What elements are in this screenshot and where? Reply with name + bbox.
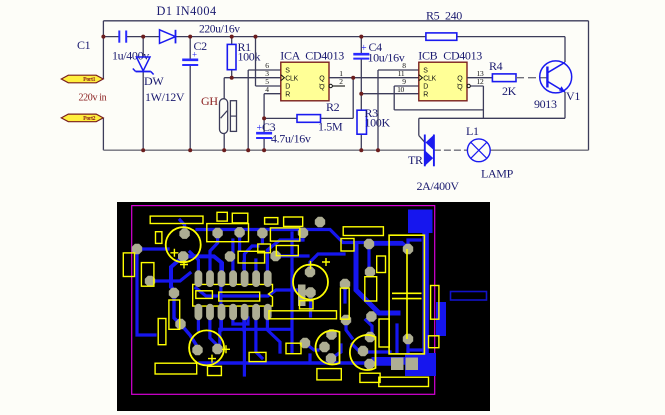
svg-text:4.7u/16v: 4.7u/16v [271, 132, 311, 146]
svg-text:4: 4 [265, 85, 269, 94]
flip-flop ICA CD4013 [281, 62, 329, 101]
svg-text:GH: GH [201, 94, 218, 108]
resistor R3 [357, 110, 367, 134]
pcb connector bar right [451, 292, 487, 301]
pcb copper pour top right [408, 210, 433, 234]
wire right rail [588, 21, 590, 150]
triac TR [424, 135, 426, 167]
svg-text:S: S [285, 68, 290, 75]
svg-text:CD4013: CD4013 [305, 49, 344, 63]
svg-text:Q: Q [319, 84, 325, 91]
wire R4 to base [516, 77, 547, 79]
svg-text:R2: R2 [326, 100, 340, 114]
svg-text:S: S [423, 68, 428, 75]
wire C2 branch [189, 37, 191, 60]
svg-text:R5: R5 [426, 9, 440, 23]
wire bottom rail triac-lamp [434, 149, 467, 151]
wire R3 branch [360, 94, 362, 111]
pcb silkscreen IC body [193, 284, 273, 306]
svg-text:Q: Q [457, 75, 463, 82]
pcb plus marks [170, 249, 178, 257]
svg-text:Port2: Port2 [83, 116, 96, 122]
port Port2 [61, 114, 103, 122]
svg-text:10: 10 [397, 85, 404, 94]
pcb board background [117, 202, 490, 411]
port Port1 [61, 75, 103, 83]
svg-text:DW: DW [144, 74, 164, 88]
wire left rail upper [102, 21, 104, 79]
svg-text:CLK: CLK [423, 75, 436, 82]
svg-text:+: + [361, 43, 367, 54]
svg-text:10u/16v: 10u/16v [368, 51, 405, 65]
pcb pads [179, 229, 189, 239]
wire R2 row [264, 117, 297, 119]
transistor V1 [540, 61, 572, 93]
wire C3 branch [263, 118, 265, 132]
pcb copper pour bottom right [405, 353, 436, 376]
wire ICB S branch [378, 69, 419, 71]
resistor R2 [297, 115, 321, 123]
wire top rail [103, 20, 588, 22]
wire bottom rail lamp-right [490, 149, 588, 151]
svg-text:ICB: ICB [418, 49, 437, 63]
svg-text:D: D [423, 84, 428, 91]
wire ICA S branch [248, 69, 281, 71]
wire bottom rail [103, 149, 424, 151]
svg-text:1W/12V: 1W/12V [145, 90, 185, 104]
resistor R5 [426, 33, 457, 40]
svg-text:R: R [423, 91, 428, 98]
svg-text:12: 12 [477, 77, 484, 86]
svg-text:Port1: Port1 [83, 77, 96, 83]
svg-text:2: 2 [339, 77, 343, 86]
ICA Qbar bubble [329, 84, 332, 87]
svg-text:Q: Q [319, 75, 325, 82]
svg-text:D: D [285, 84, 290, 91]
svg-text:D1 IN4004: D1 IN4004 [157, 4, 217, 18]
resistor R4 [492, 74, 516, 82]
svg-text:CD4013: CD4013 [443, 49, 482, 63]
svg-text:R4: R4 [489, 59, 503, 73]
pcb pad block right of IC [298, 285, 306, 307]
flip-flop ICB CD4013 [419, 62, 467, 101]
pcb silkscreen capacitor E1 [166, 227, 201, 262]
wire CLK row [224, 77, 281, 79]
svg-text:LAMP: LAMP [481, 167, 514, 181]
wire C4 branch [360, 37, 362, 54]
pcb silkscreen capacitor E2 [293, 265, 328, 300]
pcb silkscreen transistor T2 [350, 335, 376, 370]
svg-text:C2: C2 [194, 39, 208, 53]
wire emitter [564, 92, 566, 118]
pcb traces [197, 230, 408, 249]
svg-text:2A/400V: 2A/400V [417, 179, 460, 193]
wire collector drop [564, 37, 566, 62]
capacitor C4 [353, 53, 369, 56]
wire Qbar loop [482, 86, 484, 118]
resonator GH [220, 99, 228, 134]
pcb IC pads [195, 270, 203, 287]
wire zener branch [142, 37, 144, 57]
svg-text:100k: 100k [238, 50, 261, 64]
lamp L1 [467, 139, 490, 162]
svg-text:1.5M: 1.5M [318, 120, 343, 134]
wire ICA D branch [255, 37, 257, 86]
svg-text:9013: 9013 [534, 97, 557, 111]
pcb silkscreen rects [150, 216, 203, 223]
wire gate [418, 118, 420, 135]
wire to ICB [361, 93, 394, 95]
wire Q2 to R4 [467, 77, 492, 79]
wire R1 branch [231, 37, 233, 45]
junction dots [101, 35, 105, 39]
svg-text:2K: 2K [502, 84, 517, 98]
svg-text:R: R [285, 91, 290, 98]
diode D1 [160, 30, 176, 44]
pcb board outline [132, 206, 435, 395]
capacitor C3 [256, 132, 272, 135]
svg-text:CLK: CLK [285, 75, 298, 82]
wire GH branch [223, 78, 225, 151]
wire supply row [103, 36, 119, 38]
wire Q1 to CLK2 [329, 77, 419, 79]
pcb silkscreen big capacitor [389, 235, 424, 354]
pcb pad squares bottom right [391, 358, 404, 371]
svg-text:C1: C1 [77, 38, 91, 52]
ICB Qbar bubble [467, 84, 470, 87]
zener DW [136, 57, 150, 71]
resistor R1 [227, 44, 236, 69]
pcb right pour strip [436, 302, 446, 336]
svg-text:V1: V1 [566, 89, 580, 103]
wire left rail lower [102, 118, 104, 150]
svg-text:240: 240 [445, 9, 462, 23]
svg-text:Q: Q [457, 84, 463, 91]
svg-text:ICA: ICA [280, 49, 300, 63]
wire ICA R branch [264, 93, 281, 95]
svg-text:L1: L1 [466, 124, 479, 138]
svg-text:220v in: 220v in [79, 93, 107, 104]
capacitor C2 [182, 58, 198, 61]
svg-text:TR: TR [408, 153, 423, 167]
capacitor C1 [118, 31, 120, 43]
pcb silkscreen transistor T1 [316, 331, 340, 365]
svg-text:220u/16v: 220u/16v [199, 24, 240, 36]
pcb silkscreen capacitor E3 [189, 330, 224, 365]
